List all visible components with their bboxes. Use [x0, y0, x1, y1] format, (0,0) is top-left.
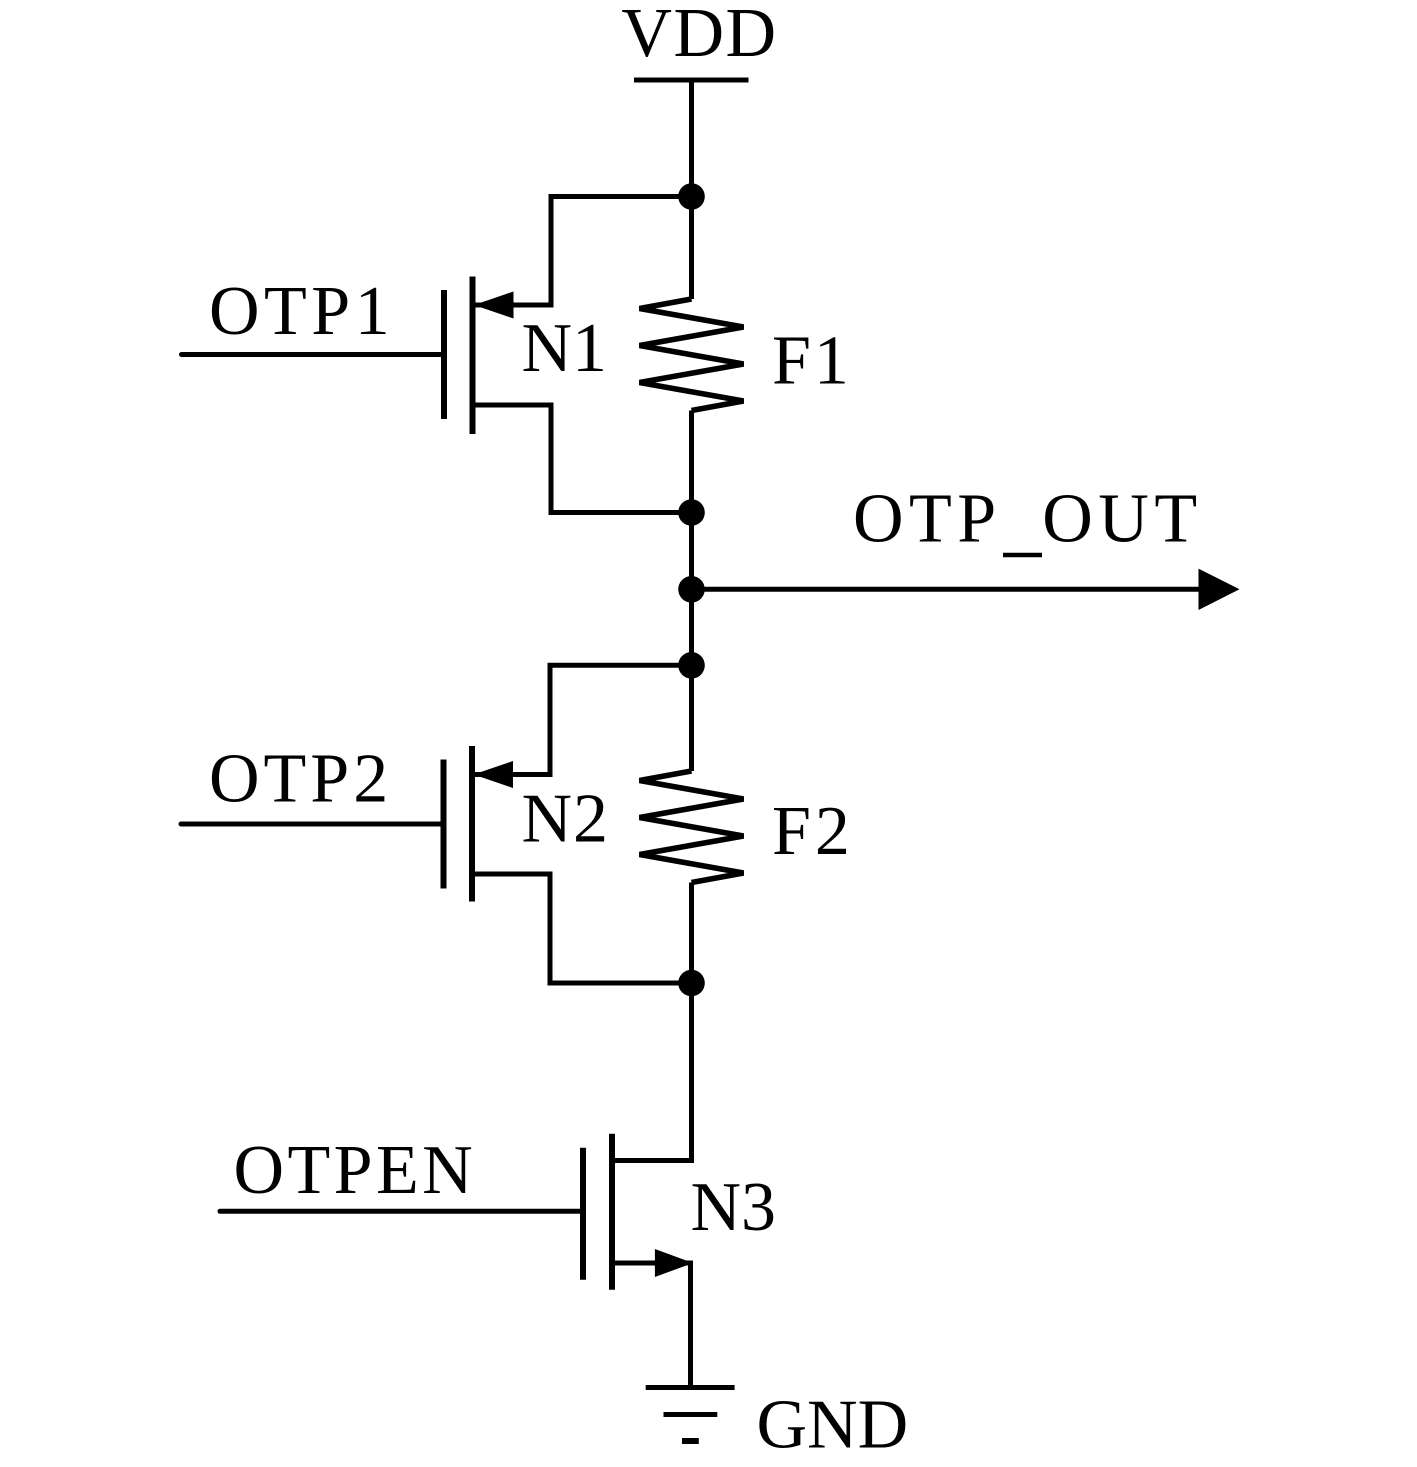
- svg-text:N3: N3: [691, 1169, 777, 1246]
- svg-text:OTPEN: OTPEN: [234, 1132, 477, 1209]
- svg-text:OTP1: OTP1: [209, 273, 394, 350]
- svg-text:VDD: VDD: [621, 0, 777, 72]
- svg-text:F1: F1: [772, 323, 852, 400]
- svg-text:GND: GND: [757, 1387, 909, 1464]
- svg-text:N2: N2: [522, 781, 610, 858]
- svg-text:N1: N1: [522, 310, 608, 387]
- svg-text:OTP_OUT: OTP_OUT: [853, 481, 1203, 558]
- svg-text:OTP2: OTP2: [209, 741, 392, 818]
- svg-text:F2: F2: [772, 793, 854, 870]
